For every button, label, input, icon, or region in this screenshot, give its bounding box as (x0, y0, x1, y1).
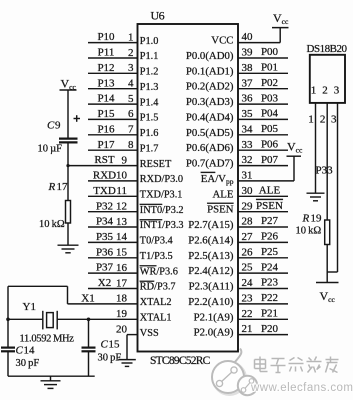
pin 14 wire (left, T0/P3.4) (88, 241, 138, 243)
wire DS18B20 leg 2 (DQ, net P33) (326, 103, 328, 220)
svg-text:10 kΩ: 10 kΩ (296, 226, 322, 237)
pin 23 name P2.2(A10) (inside U6) (188, 296, 234, 308)
svg-text:3: 3 (128, 62, 134, 74)
net label P02 (261, 77, 278, 89)
wire crystal top (XTAL2 branch horizontal) (8, 285, 68, 287)
net label P01 (261, 62, 278, 74)
svg-text:P2.1(A9): P2.1(A9) (194, 311, 234, 323)
net label P06 (261, 138, 279, 150)
pin name P1.5 (inside U6) (140, 113, 159, 124)
svg-text:P33: P33 (316, 165, 334, 177)
wire R19 bottom to Vcc bar (326, 245, 328, 283)
pin 21 wire (right, P2.0(A9)) (238, 334, 288, 336)
pin 37 name P0.2(AD2) (inside U6) (186, 81, 234, 93)
wire C15 vertical (88, 319, 90, 347)
svg-text:P1.1: P1.1 (140, 51, 159, 62)
pin 2 number (128, 47, 134, 59)
svg-text:STC89C52RC: STC89C52RC (150, 355, 211, 367)
svg-text:26: 26 (242, 246, 254, 258)
pin 17 number (116, 277, 128, 289)
svg-text:10: 10 (116, 170, 128, 182)
net label P10 (97, 31, 115, 43)
wire DS18B20 leg 1 (GND) (315, 103, 317, 193)
pin 23 wire (right, P2.2(A10)) (238, 303, 288, 305)
svg-text:13: 13 (116, 216, 128, 228)
net label P21 (261, 308, 278, 320)
svg-text:R: R (48, 181, 56, 193)
net label P37 (96, 262, 114, 274)
refdes label Y1 (23, 301, 36, 313)
pin name XTAL1 (inside U6) (140, 313, 172, 324)
net label P03 (261, 92, 279, 104)
pin 32 name P0.7(AD7) (inside U6) (186, 158, 234, 170)
pin 21 number (242, 323, 253, 335)
wire DS18B20 leg 3 (VDD) (327, 103, 337, 272)
svg-text:P0.5(AD5): P0.5(AD5) (186, 127, 234, 139)
pin name P1.2 (inside U6) (140, 67, 159, 78)
svg-text:RXD: RXD (93, 170, 116, 182)
pin 31 wire (right, EAVPP) (238, 180, 294, 182)
net label P32 (96, 200, 113, 212)
net label P13 (97, 77, 115, 89)
pin 26 wire (right, P2.5(A13)) (238, 257, 288, 259)
pin 5 wire (left, P1.4) (88, 103, 138, 105)
pin 40 number (242, 31, 254, 43)
part label DS18B20 (307, 43, 348, 55)
value label 30pF (C14) (16, 358, 40, 369)
net label TXD (93, 185, 116, 197)
svg-text:3: 3 (331, 114, 337, 126)
svg-text:P2.3(A11): P2.3(A11) (189, 281, 234, 293)
pin 27 name P2.6(A14) (inside U6) (188, 234, 234, 246)
net label P12 (97, 62, 114, 74)
pin 30 number (242, 185, 254, 197)
svg-text:P22: P22 (261, 292, 278, 304)
pin 26 name P2.5(A13) (inside U6) (188, 250, 234, 262)
svg-text:9: 9 (55, 120, 61, 132)
pin 36 name P0.3(AD3) (inside U6) (186, 96, 234, 108)
svg-text:T1/P3.5: T1/P3.5 (140, 251, 173, 262)
pin 27 number (242, 231, 254, 243)
pin 18 number (116, 293, 128, 305)
svg-text:WR/P3.6: WR/P3.6 (140, 266, 178, 277)
net label P20 (261, 323, 279, 335)
svg-text:11: 11 (116, 185, 127, 197)
svg-text:10 kΩ: 10 kΩ (39, 219, 65, 230)
svg-text:P34: P34 (96, 216, 114, 228)
pin 31 number (242, 170, 253, 182)
pin 25 wire (right, P2.4(A12)) (238, 272, 288, 274)
value label 10k ohm (R19) (296, 226, 322, 237)
svg-text:31: 31 (242, 170, 253, 182)
pin 28 name P2.7(A15) (inside U6) (188, 219, 234, 231)
svg-text:10 µF: 10 µF (38, 144, 63, 155)
svg-text:C: C (101, 339, 109, 351)
pin name P1.0 (inside U6) (140, 36, 159, 47)
svg-text:P13: P13 (97, 77, 115, 89)
svg-text:Y1: Y1 (23, 301, 36, 313)
svg-text:P17: P17 (97, 139, 115, 151)
svg-text:XTAL2: XTAL2 (140, 297, 172, 308)
pin 30 wire (right, ALE) (238, 195, 288, 197)
wire C15 bottom lead (88, 351, 90, 376)
pin 25 name P2.4(A12) (inside U6) (188, 265, 234, 277)
svg-text:35: 35 (242, 108, 254, 120)
svg-text:19: 19 (311, 213, 323, 225)
pin 5 number (128, 93, 134, 105)
svg-text:P0.6(AD6): P0.6(AD6) (186, 142, 234, 154)
svg-text:P05: P05 (261, 123, 279, 135)
net label P16 (97, 123, 115, 135)
svg-text:P25: P25 (261, 246, 279, 258)
node C15 tap junction (87, 318, 91, 322)
svg-text:1: 1 (308, 114, 314, 126)
refdes label C15 (101, 339, 121, 351)
svg-text:INT0/P3.2: INT0/P3.2 (140, 205, 184, 216)
svg-text:P20: P20 (261, 323, 279, 335)
pin 3 wire (left, P1.2) (88, 72, 138, 74)
pin 6 number (128, 108, 134, 120)
svg-text:36: 36 (242, 93, 254, 105)
pin 34 number (242, 123, 254, 135)
value label 10uF (38, 144, 63, 155)
svg-text:P21: P21 (261, 308, 278, 320)
net label P27 (261, 215, 279, 227)
net label X1 (81, 293, 94, 305)
pin 8 wire (left, P1.7) (88, 149, 138, 151)
svg-text:2: 2 (320, 114, 326, 126)
svg-text:7: 7 (128, 124, 134, 136)
pin 35 number (242, 108, 254, 120)
pin name RESET (inside U6) (140, 159, 172, 170)
refdes label R19 (302, 213, 323, 225)
pin 27 wire (right, P2.6(A14)) (238, 241, 288, 243)
net label ALE (259, 185, 281, 197)
svg-text:P12: P12 (97, 62, 114, 74)
svg-text:RST: RST (94, 154, 114, 166)
ground (crystal network) (41, 376, 61, 388)
power symbol Vcc (mid right, pin 31 EA) (287, 140, 304, 157)
svg-text:P04: P04 (261, 108, 279, 120)
svg-text:P0.2(AD2): P0.2(AD2) (186, 81, 234, 93)
svg-text:34: 34 (242, 123, 254, 135)
refdes label C9 (47, 120, 61, 132)
svg-text:P1.7: P1.7 (140, 143, 159, 154)
svg-text:P0.0(AD0): P0.0(AD0) (186, 50, 234, 62)
capacitor C9 (electrolytic) (59, 115, 80, 142)
value label 10k ohm (39, 219, 65, 230)
net label RST (94, 154, 114, 166)
svg-text:22: 22 (242, 308, 253, 320)
pin 3 number (128, 62, 134, 74)
svg-text:C: C (16, 345, 24, 357)
svg-text:30 pF: 30 pF (16, 358, 40, 369)
svg-text:X1: X1 (81, 293, 94, 305)
svg-text:P14: P14 (97, 93, 115, 105)
svg-text:17: 17 (57, 181, 69, 193)
svg-text:XTAL1: XTAL1 (140, 313, 172, 324)
svg-text:P02: P02 (261, 77, 278, 89)
svg-text:27: 27 (242, 231, 254, 243)
svg-text:P03: P03 (261, 92, 279, 104)
svg-text:29: 29 (242, 200, 254, 212)
svg-text:P15: P15 (97, 108, 115, 120)
capacitor C15 (82, 348, 96, 352)
svg-text:12: 12 (116, 201, 127, 213)
DS18B20 pin numbers inside (1 2 3) (311, 85, 340, 97)
svg-text:6: 6 (128, 108, 134, 120)
refdes label C14 (16, 345, 36, 357)
svg-text:32: 32 (242, 154, 253, 166)
part label STC89C52RC (150, 355, 211, 367)
wire bottom rail (8, 375, 95, 377)
net label P00 (261, 46, 279, 58)
pin 8 number (128, 139, 134, 151)
pin name INT0/P3.2 (inside U6) (140, 205, 184, 216)
pin 18 wire (left, XTAL2) (68, 303, 138, 305)
svg-text:P23: P23 (261, 277, 279, 289)
crystal Y1 (43, 311, 57, 330)
svg-text:R: R (302, 213, 310, 225)
pin 23 number (242, 293, 254, 305)
pin 39 name P0.0(AD0) (inside U6) (186, 50, 234, 62)
pin 4 wire (left, P1.3) (88, 88, 138, 90)
pin 28 wire (right, P2.7(A15)) (238, 226, 288, 228)
pin 32 number (242, 154, 253, 166)
pin 39 wire (right, P0.0(AD0)) (238, 57, 288, 59)
svg-text:P1.3: P1.3 (140, 82, 159, 93)
svg-text:P01: P01 (261, 62, 278, 74)
svg-text:24: 24 (242, 277, 254, 289)
pin 22 name P2.1(A9) (inside U6) (194, 311, 234, 323)
pin 33 wire (right, P0.6(AD6)) (238, 149, 288, 151)
pin 24 wire (right, P2.3(A11)) (238, 288, 288, 290)
svg-text:RD/P3.7: RD/P3.7 (140, 282, 176, 293)
pin 30 name ALE (inside U6) (213, 188, 234, 200)
svg-text:INT1/P3.3: INT1/P3.3 (140, 220, 184, 231)
node RST junction (66, 164, 69, 167)
pin name TXD/P3.1 (inside U6) (140, 190, 183, 201)
pin 19 number (116, 308, 128, 320)
pin 28 number (242, 216, 254, 228)
svg-text:RXD/P3.0: RXD/P3.0 (140, 174, 183, 185)
svg-text:19: 19 (116, 308, 128, 320)
pin 9 wire (left, RESET) (68, 165, 138, 167)
pin 22 wire (right, P2.1(A9)) (238, 318, 288, 320)
pin name P1.7 (inside U6) (140, 143, 159, 154)
pin 9 number (122, 154, 128, 166)
pin 22 number (242, 308, 253, 320)
svg-text:P10: P10 (97, 31, 115, 43)
pin 37 number (242, 77, 254, 89)
svg-text:8: 8 (128, 139, 134, 151)
sensor DS18B20 body (310, 55, 345, 103)
pin 12 number (116, 201, 127, 213)
pin name T1/P3.5 (inside U6) (140, 251, 173, 262)
capacitor C14 (1, 348, 15, 352)
wire RST node to R17 top (67, 166, 69, 201)
pin 7 number (128, 124, 134, 136)
svg-text:9: 9 (122, 154, 128, 166)
pin 38 name P0.1(AD1) (inside U6) (186, 65, 234, 77)
pin 32 wire (right, P0.7(AD7)) (238, 165, 288, 167)
svg-text:21: 21 (242, 323, 253, 335)
svg-text:P0.1(AD1): P0.1(AD1) (186, 65, 234, 77)
svg-text:3: 3 (334, 85, 340, 97)
pin name XTAL2 (inside U6) (140, 297, 172, 308)
svg-text:11.0592 MHz: 11.0592 MHz (20, 334, 75, 345)
wire C14 bottom lead (7, 351, 9, 376)
wire VSS pin 20 down lead (126, 335, 128, 360)
svg-text:TXD: TXD (93, 185, 116, 197)
svg-text:P06: P06 (261, 138, 279, 150)
svg-text:16: 16 (116, 262, 128, 274)
wire crystal left lead (8, 318, 43, 320)
svg-text:C: C (47, 120, 55, 132)
svg-text:P2.4(A12): P2.4(A12) (188, 265, 234, 277)
resistor R19 (325, 220, 330, 245)
pin 1 number (128, 31, 134, 43)
net label P24 (261, 261, 279, 273)
wire Vcc to pin 40 (279, 28, 281, 43)
svg-text:P24: P24 (261, 261, 279, 273)
pin 37 wire (right, P0.2(AD2)) (238, 88, 288, 90)
power symbol Vcc (top right, pin 40) (272, 11, 289, 28)
net label P25 (261, 246, 279, 258)
pin name WR/P3.6 (inside U6) (140, 266, 178, 277)
svg-text:PSEN: PSEN (207, 204, 234, 216)
refdes label R17 (48, 181, 69, 193)
value label 11.0592 MHz (20, 334, 75, 345)
value label 30pF (C15) (98, 353, 122, 364)
svg-text:P0.4(AD4): P0.4(AD4) (186, 111, 234, 123)
pin 35 wire (right, P0.4(AD4)) (238, 118, 288, 120)
pin 7 wire (left, P1.6) (88, 134, 138, 136)
pin 40 wire (right, VCC) (238, 42, 280, 44)
pin 40 name VCC (inside U6) (211, 35, 233, 47)
net label P22 (261, 292, 278, 304)
pin 38 wire (right, P0.1(AD1)) (238, 72, 288, 74)
svg-text:P1.0: P1.0 (140, 36, 159, 47)
svg-text:20: 20 (116, 323, 128, 335)
svg-text:P1.4: P1.4 (140, 97, 159, 108)
net label P17 (97, 139, 115, 151)
pin 11 number (116, 185, 127, 197)
pin 13 wire (left, INT1/P3.3) (88, 226, 138, 228)
pin 12 wire (left, INT0/P3.2) (88, 211, 138, 213)
svg-text:www.elecfans.com: www.elecfans.com (250, 382, 353, 394)
pin 26 number (242, 246, 254, 258)
svg-text:30: 30 (242, 185, 254, 197)
pin 21 name P2.0(A9) (inside U6) (194, 327, 234, 339)
pin 31 name EAVPP (inside U6) (201, 173, 234, 186)
pin 4 number (128, 78, 134, 90)
pin 34 wire (right, P0.5(AD5)) (238, 134, 288, 136)
svg-text:T0/P3.4: T0/P3.4 (140, 236, 173, 247)
net label P11 (98, 47, 115, 59)
svg-text:P1.2: P1.2 (140, 67, 159, 78)
net label P36 (96, 246, 114, 258)
svg-text:VSS: VSS (140, 328, 159, 339)
svg-text:2: 2 (322, 85, 328, 97)
pin 25 number (242, 262, 254, 274)
pin 20 number (116, 323, 128, 335)
net label X2 (98, 277, 111, 289)
svg-text:ALE: ALE (259, 185, 281, 197)
ground (below R17) (58, 245, 79, 253)
node crystal left junction (6, 318, 10, 322)
svg-text:28: 28 (242, 216, 254, 228)
svg-text:VCC: VCC (211, 35, 233, 47)
svg-text:P36: P36 (96, 246, 114, 258)
svg-text:38: 38 (242, 62, 254, 74)
net label P33 (316, 165, 334, 177)
pin 16 number (116, 262, 128, 274)
svg-text:14: 14 (116, 231, 128, 243)
pin 11 wire (left, TXD/P3.1) (88, 195, 138, 197)
pin name P1.1 (inside U6) (140, 51, 159, 62)
svg-text:RESET: RESET (140, 159, 172, 170)
pin name T0/P3.4 (inside U6) (140, 236, 173, 247)
svg-text:P0.3(AD3): P0.3(AD3) (186, 96, 234, 108)
pin 15 wire (left, T1/P3.5) (88, 257, 138, 259)
wire R17 bottom to ground (67, 223, 69, 245)
pin 13 number (116, 216, 128, 228)
power symbol Vcc (bottom right, inverted) (316, 283, 339, 305)
svg-text:P1.6: P1.6 (140, 128, 159, 139)
svg-text:P35: P35 (96, 231, 114, 243)
svg-text:14: 14 (24, 345, 36, 357)
pin 35 name P0.4(AD4) (inside U6) (186, 111, 234, 123)
svg-text:P00: P00 (261, 46, 279, 58)
pin 29 wire (right, PSEN) (238, 211, 288, 213)
pin 15 number (116, 247, 128, 259)
ground (VSS pin 20) (118, 360, 136, 367)
net label PSEN (256, 200, 283, 212)
net label P05 (261, 123, 279, 135)
net label P15 (97, 108, 115, 120)
svg-text:P16: P16 (97, 123, 115, 135)
svg-text:15: 15 (116, 247, 128, 259)
svg-text:TXD/P3.1: TXD/P3.1 (140, 190, 183, 201)
svg-text:P37: P37 (96, 262, 114, 274)
ground (DS18B20 leg 1) (307, 193, 325, 201)
svg-text:2: 2 (128, 47, 134, 59)
svg-text:X2: X2 (98, 277, 111, 289)
power symbol Vcc (left, reset network) (60, 77, 77, 92)
svg-text:U6: U6 (151, 9, 165, 23)
svg-text:P2.5(A13): P2.5(A13) (188, 250, 234, 262)
net label P14 (97, 93, 115, 105)
svg-text:1: 1 (128, 31, 134, 43)
svg-text:1: 1 (311, 85, 317, 97)
svg-text:18: 18 (116, 293, 128, 305)
svg-text:PSEN: PSEN (256, 200, 283, 212)
pin 24 number (242, 277, 254, 289)
wire left rail vertical (to C14) (7, 286, 9, 347)
svg-text:17: 17 (116, 277, 128, 289)
wire Vcc bar to C9 top (67, 90, 69, 139)
pin 39 number (242, 47, 254, 59)
pin 36 wire (right, P0.3(AD3)) (238, 103, 288, 105)
svg-text:33: 33 (242, 139, 254, 151)
pin name P1.6 (inside U6) (140, 128, 159, 139)
pin 10 number (116, 170, 128, 182)
svg-text:P2.6(A14): P2.6(A14) (188, 234, 234, 246)
svg-text:DS18B20: DS18B20 (307, 43, 348, 55)
pin name VSS (inside U6) (140, 328, 159, 339)
pin 36 number (242, 93, 254, 105)
